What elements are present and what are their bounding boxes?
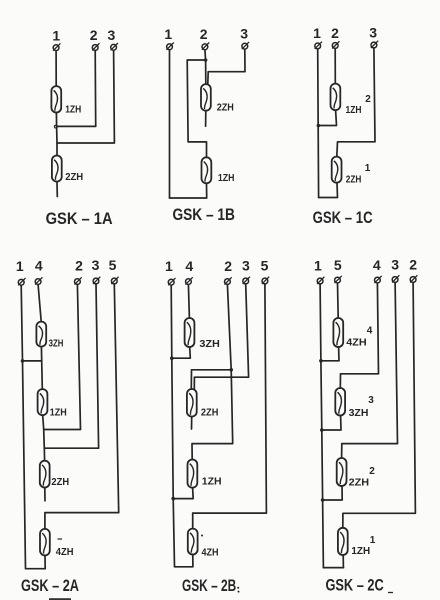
wire terminal5 to 4ZH (GSK-2B) (193, 284, 267, 529)
svg-text:3: 3 (108, 27, 116, 43)
fuse 4ZH (GSK-2A) (40, 529, 50, 556)
terminal 2 (GSK-2A) (74, 258, 83, 285)
terminal 2 (GSK-1B) (200, 26, 209, 50)
wire stub below 2ZH (GSK-1A) (56, 182, 58, 197)
fuse 3ZH (GSK-2C) (335, 388, 345, 416)
terminal 3 (GSK-2B) (242, 257, 250, 284)
fuse 1ZH (GSK-2C) (338, 528, 348, 555)
fuse 1ZH (GSK-1A) (51, 86, 61, 112)
wire stub below 2ZH (GSK-1B) (205, 111, 207, 127)
terminal 3 (GSK-2C) (391, 256, 399, 282)
svg-text:1: 1 (314, 257, 322, 273)
terminal 2 (GSK-2B) (224, 258, 232, 285)
wire terminal2 to 1ZH (GSK-2C) (343, 283, 416, 528)
wire branch 2ZH-top to terminal3 (GSK-2B) (194, 284, 248, 389)
svg-text:2: 2 (90, 27, 98, 43)
wire 3ZH to bus (GSK-2B) (172, 347, 191, 358)
fuse 3ZH (GSK-2B) (185, 318, 195, 347)
wire chain 1ZH to 2ZH (GSK-2A) (43, 415, 45, 461)
artifact dot (GSK-2B) (201, 535, 203, 537)
svg-text:GSK – 2B: GSK – 2B (182, 576, 236, 595)
wire terminal2 to 2ZH (GSK-1B) (204, 50, 207, 84)
wire terminal1 to 1ZH (GSK-1A) (55, 51, 57, 86)
fuse 2ZH (GSK-2A) (40, 461, 50, 488)
svg-text:3ZH: 3ZH (49, 338, 64, 350)
wire terminal3 branch (GSK-1B) (208, 49, 245, 84)
svg-text:4: 4 (367, 326, 373, 337)
wire terminal3 branch (GSK-2A) (44, 284, 98, 448)
wire terminal1 bus (GSK-2C) (320, 284, 343, 568)
wire stub below 2ZH (GSK-2B) (191, 417, 193, 429)
terminal 4 (GSK-2A) (35, 258, 43, 285)
wire bypass terminal2 to 1ZH (GSK-1B) (187, 60, 206, 157)
wire terminal4 to 3ZH (GSK-2B) (188, 285, 189, 318)
fuse 4ZH (GSK-2B) (188, 529, 198, 555)
svg-text:2: 2 (224, 258, 232, 274)
svg-text:GSK – 1A: GSK – 1A (46, 209, 113, 228)
svg-text:1ZH: 1ZH (202, 476, 222, 488)
wire 3ZH to bus (GSK-2C) (322, 416, 341, 431)
svg-text:2ZH: 2ZH (217, 102, 234, 114)
wire terminal2 branch (GSK-1A) (57, 51, 96, 127)
svg-text:3: 3 (242, 257, 250, 273)
svg-text:1ZH: 1ZH (65, 104, 81, 116)
svg-text:2: 2 (369, 466, 375, 477)
svg-text:3: 3 (391, 256, 399, 272)
svg-text:5: 5 (109, 257, 117, 273)
svg-text:2ZH: 2ZH (51, 476, 69, 488)
junction dot 2 (GSK-2C) (320, 428, 324, 432)
svg-text:1ZH: 1ZH (218, 172, 235, 184)
terminal 4 (GSK-2C) (373, 257, 382, 283)
terminal 3 (GSK-2A) (92, 257, 101, 284)
terminal 1 (GSK-2B) (165, 258, 175, 285)
fuse 2ZH (GSK-1B) (201, 84, 211, 111)
svg-text:2ZH: 2ZH (201, 406, 219, 418)
svg-text:1: 1 (16, 258, 24, 274)
artifact dash (GSK-2A) (58, 538, 63, 540)
wire 1ZH to terminal1 (GSK-1B) (170, 183, 207, 198)
terminal 3 (GSK-1A) (108, 27, 118, 51)
svg-text:1: 1 (164, 26, 172, 42)
fuse 2ZH (GSK-2B) (187, 389, 197, 417)
wire terminal3 to 2ZH (GSK-2C) (342, 283, 398, 459)
wire terminal4 to 3ZH (GSK-2A) (38, 285, 41, 322)
svg-text:1ZH: 1ZH (50, 407, 67, 419)
svg-text:5: 5 (334, 257, 342, 273)
fuse 1ZH (GSK-1B) (202, 157, 212, 183)
svg-text:3: 3 (368, 395, 374, 406)
wire 4ZH to terminal1 (GSK-2A) (44, 555, 46, 568)
svg-text:3ZH: 3ZH (349, 407, 369, 419)
terminal 1 (GSK-2A) (16, 258, 26, 285)
fuse 2ZH (GSK-2C) (337, 458, 347, 486)
junction dot lower bus (GSK-2B) (171, 497, 175, 501)
terminal 2 (GSK-1A) (90, 27, 100, 51)
svg-text:2: 2 (75, 258, 83, 274)
terminal 1 (GSK-1B) (164, 26, 173, 50)
fuse 3ZH (GSK-2A) (36, 322, 46, 347)
svg-text:4ZH: 4ZH (202, 546, 219, 558)
terminal 1 (GSK-2C) (314, 257, 324, 284)
svg-text:2ZH: 2ZH (346, 174, 362, 186)
wire terminal3 branch (GSK-1C) (337, 48, 375, 157)
wire 4ZH to bus (GSK-2C) (321, 347, 339, 361)
wire terminal5 to 4ZH (GSK-2C) (337, 283, 340, 318)
svg-text:GSK – 2C: GSK – 2C (325, 576, 383, 595)
artifact colon (GSK-2B) (237, 587, 239, 593)
terminal 5 (GSK-2B) (261, 257, 270, 284)
fuse 2ZH (GSK-1C) (332, 157, 342, 183)
svg-text:1: 1 (313, 25, 321, 41)
svg-text:4ZH: 4ZH (56, 546, 74, 558)
svg-text:2: 2 (365, 94, 371, 105)
scan smudge bottom edge (49, 598, 71, 600)
svg-text:1: 1 (365, 163, 371, 174)
fuse 1ZH (GSK-2B) (188, 460, 198, 488)
wire 1ZH to bus bottom (GSK-2C) (323, 555, 343, 568)
svg-text:2: 2 (200, 26, 208, 42)
terminal 2 (GSK-1C) (331, 25, 339, 49)
wire terminal4 to 3ZH (GSK-2C) (340, 283, 378, 388)
junction dot bus (GSK-2B) (170, 356, 174, 360)
svg-text:4: 4 (373, 257, 381, 273)
terminal 5 (GSK-2A) (109, 257, 119, 284)
junction dot (GSK-1C) (317, 124, 321, 128)
junction dot terminal2 (GSK-2B) (229, 368, 233, 372)
svg-text:2: 2 (409, 256, 417, 272)
wire 1ZH to 2ZH chain (GSK-1A) (55, 113, 58, 156)
wire terminal1 bus (GSK-1C) (317, 49, 320, 198)
svg-text:GSK – 1C: GSK – 1C (313, 208, 373, 227)
wire chain 3ZH to 1ZH (GSK-2A) (40, 347, 43, 390)
wire terminal2 to 1ZH (GSK-1C) (334, 49, 336, 84)
svg-text:GSK – 2A: GSK – 2A (21, 576, 79, 595)
fuse 1ZH (GSK-1C) (331, 84, 341, 111)
svg-text:3ZH: 3ZH (199, 338, 220, 350)
wire terminal1 bus (GSK-2B) (171, 285, 192, 567)
svg-text:3: 3 (92, 257, 100, 273)
fuse 1ZH (GSK-2A) (38, 389, 48, 415)
fuse 2ZH (GSK-1A) (52, 156, 62, 182)
junction dot (GSK-1A) (54, 125, 57, 128)
wire terminal3 branch (GSK-1A) (57, 50, 114, 143)
wire terminal2 branch (GSK-2A) (44, 284, 81, 429)
svg-text:2ZH: 2ZH (349, 477, 370, 489)
svg-text:5: 5 (261, 257, 269, 273)
wire 1ZH to bus (GSK-2B) (173, 488, 193, 499)
wire 2ZH to bus (GSK-2C) (323, 486, 343, 500)
terminal 1 (GSK-1A) (52, 27, 60, 50)
junction dot 1 (GSK-2C) (319, 359, 323, 363)
wire terminal1 down (GSK-1B) (169, 50, 171, 198)
svg-text:1ZH: 1ZH (346, 104, 362, 116)
fuse 4ZH (GSK-2C) (333, 318, 343, 347)
svg-text:3: 3 (240, 26, 248, 42)
artifact underscore (GSK-2C) (388, 592, 393, 594)
svg-text:1: 1 (165, 258, 173, 274)
terminal 5 (GSK-2C) (334, 257, 342, 283)
svg-text:3: 3 (369, 24, 377, 40)
svg-text:2: 2 (331, 25, 339, 41)
svg-text:4: 4 (35, 258, 43, 274)
wire terminal5 to 4ZH (GSK-2A) (45, 284, 119, 529)
wire 4ZH to bus bottom (GSK-2B) (192, 555, 194, 567)
wire terminal2 to 1ZH (GSK-2B) (192, 284, 233, 459)
junction dot (GSK-1B) (204, 58, 208, 62)
wire 1ZH to bus (GSK-1C) (318, 110, 336, 125)
terminal 4 (GSK-2B) (185, 258, 193, 285)
junction dot 3 (GSK-2C) (321, 498, 325, 502)
terminal 3 (GSK-1B) (240, 26, 249, 50)
svg-text:1ZH: 1ZH (351, 545, 370, 557)
wire terminal1 bus (GSK-2A) (21, 285, 45, 569)
svg-text:GSK – 1B: GSK – 1B (172, 205, 235, 224)
svg-text:1: 1 (52, 27, 60, 43)
wire 2ZH to bus bottom (GSK-1C) (319, 183, 338, 198)
svg-text:4ZH: 4ZH (346, 337, 366, 349)
svg-text:2ZH: 2ZH (65, 171, 83, 183)
terminal 2 (GSK-2C) (409, 256, 417, 282)
terminal 1 (GSK-1C) (313, 25, 322, 49)
wire stub below 2ZH (GSK-2A) (44, 488, 46, 501)
svg-text:4: 4 (185, 258, 193, 274)
junction dot (GSK-2A) (21, 359, 25, 363)
terminal 3 (GSK-1C) (369, 24, 378, 48)
wire branch 2ZH-top to terminal2 (GSK-2B) (191, 370, 231, 389)
wire tap to terminal1 (GSK-2A) (23, 360, 42, 362)
svg-text:1: 1 (370, 535, 376, 546)
